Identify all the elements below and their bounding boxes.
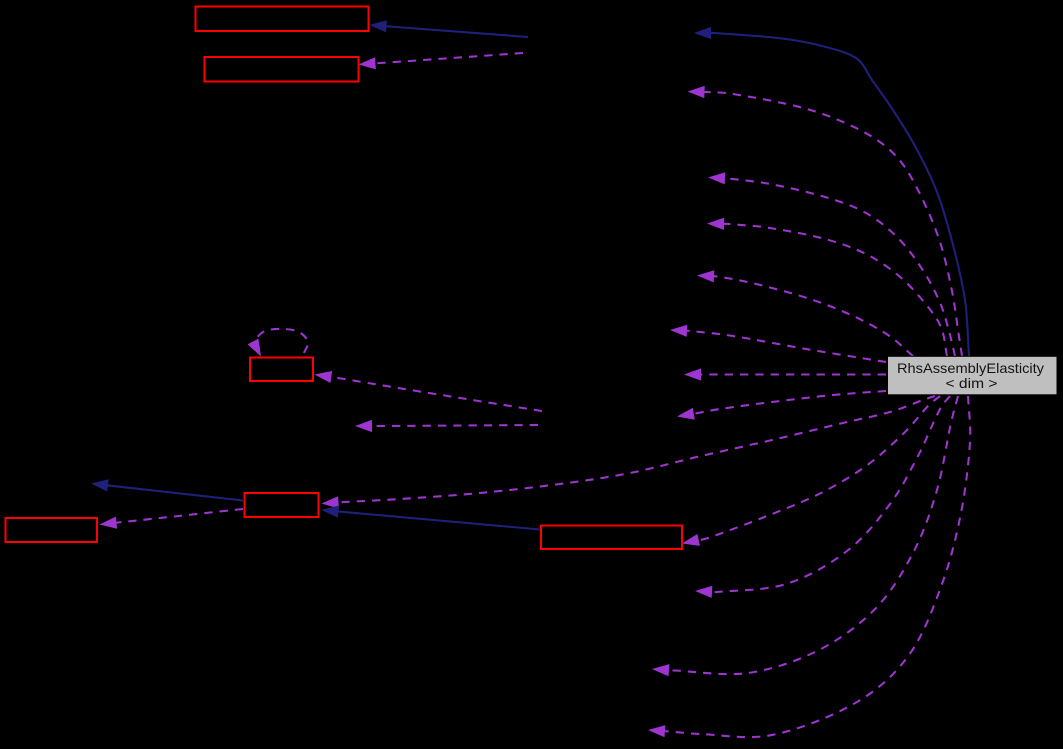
usage arrow F9: to bottom box (dashed purple curve) bbox=[682, 396, 940, 546]
node box with self-loop (red) bbox=[250, 358, 313, 382]
svg-text:< dim >: < dim > bbox=[946, 376, 998, 391]
svg-text:RhsAssemblyElasticity: RhsAssemblyElasticity bbox=[897, 361, 1044, 376]
self-loop usage arrow on small box (dashed purple) bbox=[248, 329, 309, 357]
usage arrow F7 (dashed purple) bbox=[677, 391, 886, 420]
usage arrow: middle box to left box (dashed purple) bbox=[100, 509, 244, 529]
usage arrow F12 (dashed purple curve) bbox=[648, 396, 970, 737]
usage arrow F6 (dashed purple horizontal) bbox=[684, 368, 886, 380]
usage arrow F4 (dashed purple curve) bbox=[697, 270, 913, 356]
inheritance arrow: RhsAssemblyElasticity to hidden node (solid blue curve) bbox=[694, 27, 969, 356]
usage arrow F1 (dashed purple curve) bbox=[688, 86, 963, 356]
usage arrow F2 (dashed purple curve) bbox=[708, 172, 955, 356]
usage arrow F8: to middle box (dashed purple long curve) bbox=[322, 396, 936, 509]
inheritance arrow: hidden node to top box 1 (solid blue) bbox=[370, 20, 529, 37]
node box left (red) bbox=[6, 518, 98, 542]
node box middle (red) bbox=[245, 493, 319, 517]
node RhsAssemblyElasticity< dim > (gray, current class) bbox=[888, 356, 1058, 395]
usage arrow: hidden node to top box 2 (dashed purple) bbox=[359, 53, 524, 69]
usage arrow F3 (dashed purple curve) bbox=[707, 218, 947, 356]
inheritance arrow: middle box to hidden node (solid blue) bbox=[91, 479, 243, 500]
usage arrow F11 (dashed purple curve) bbox=[652, 396, 958, 676]
usage arrow F5 (dashed purple) bbox=[670, 325, 886, 362]
usage arrow F10 (dashed purple curve) bbox=[695, 396, 950, 598]
node box 2 (red) bbox=[205, 57, 359, 82]
usage arrow G1: hidden node to self-loop box (dashed purple) bbox=[315, 371, 543, 411]
usage arrow G2: hidden node to hidden node (dashed purple) bbox=[355, 420, 538, 432]
node box 1 (red, top) bbox=[196, 7, 369, 32]
inheritance arrow: bottom box to middle box (solid blue) bbox=[322, 505, 541, 529]
node box bottom (red) bbox=[541, 526, 682, 550]
